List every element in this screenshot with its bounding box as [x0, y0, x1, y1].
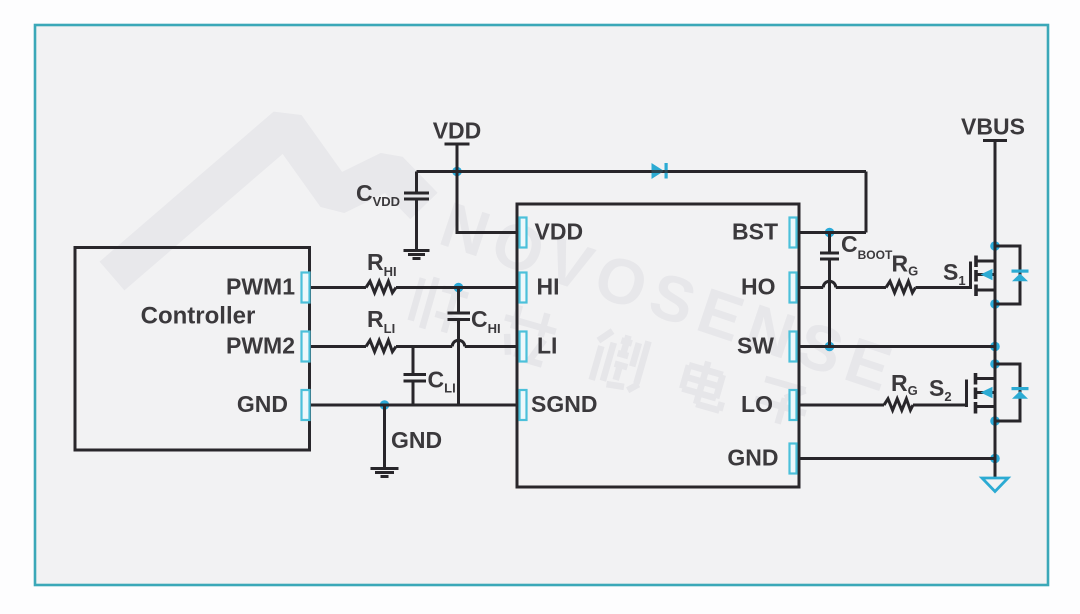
- svg-text:SW: SW: [737, 333, 774, 359]
- diode D1 symbol (cyan): [1012, 270, 1029, 282]
- svg-text:BST: BST: [732, 219, 778, 245]
- svg-text:VDD: VDD: [433, 118, 482, 144]
- pin VDD: [520, 218, 527, 248]
- ground (signal gnd): [371, 469, 399, 477]
- wire VDD terminal drop: [445, 144, 470, 172]
- pin BST: [790, 218, 797, 248]
- svg-text:LO: LO: [741, 391, 773, 417]
- wire PWM1 to HI: [310, 286, 518, 289]
- pin PWM2: [302, 332, 310, 362]
- svg-text:VDD: VDD: [535, 219, 584, 245]
- wire BST to top rail: [799, 231, 866, 234]
- wire LO to S2 gate: [799, 404, 965, 407]
- resistor RG (high side): [886, 281, 916, 292]
- hop on HO wire: [823, 281, 836, 287]
- svg-text:GND: GND: [391, 427, 442, 453]
- svg-text:Controller: Controller: [141, 303, 256, 330]
- svg-text:HI: HI: [537, 274, 560, 300]
- controller box: [75, 248, 310, 451]
- arrow of Q1: [981, 269, 993, 280]
- diode body D1 loop: [995, 246, 1020, 304]
- wire VDD top rail: [417, 172, 867, 233]
- node Q1 source: [990, 299, 1000, 309]
- capacitor CLI: [404, 347, 427, 406]
- capacitor CHI: [448, 288, 471, 406]
- node Q2 drain: [990, 359, 1000, 369]
- svg-text:GND: GND: [237, 391, 288, 417]
- watermark NOVOSENSE text: [432, 188, 908, 408]
- svg-text:SGND: SGND: [531, 391, 597, 417]
- ground (below CVDD): [404, 251, 430, 259]
- pin LI: [520, 332, 527, 362]
- capacitor CBOOT: [820, 233, 839, 347]
- svg-text:PWM2: PWM2: [226, 333, 295, 359]
- resistor RG (low side): [884, 399, 913, 410]
- transistor Q1 (S1): [971, 256, 996, 297]
- pin HI: [520, 273, 527, 303]
- node Q2 source: [990, 416, 1000, 426]
- node BST junction: [825, 228, 835, 238]
- wire GND stub down: [383, 405, 386, 468]
- node Q1 drain: [990, 241, 1000, 251]
- pin SW: [790, 332, 797, 362]
- VBUS terminal: [983, 139, 1007, 142]
- node HI junction: [454, 283, 464, 293]
- node GND junction: [380, 400, 390, 410]
- capacitor CVDD: [404, 172, 429, 250]
- wire VDD junction to VDD pin: [457, 172, 517, 233]
- wire PWM2 to LI: [310, 345, 518, 348]
- wire GND row: [799, 457, 995, 460]
- watermark logo chevron: [112, 126, 424, 276]
- transistor Q2 (S2): [967, 373, 996, 414]
- svg-text:GND: GND: [727, 445, 778, 471]
- svg-text:PWM1: PWM1: [226, 274, 295, 300]
- wire GND to SGND: [310, 404, 518, 407]
- pin LO: [790, 390, 797, 420]
- hop on LI wire: [452, 340, 465, 346]
- node SW junction (VBUS rail): [990, 342, 1000, 352]
- wire VBUS vertical rail: [994, 142, 997, 478]
- diode D2 symbol (cyan): [1012, 387, 1029, 399]
- pin PWM1: [302, 273, 310, 303]
- svg-text:LI: LI: [537, 333, 557, 359]
- node GND row junction: [990, 454, 1000, 464]
- wire HO to S1 gate: [799, 286, 970, 289]
- pin SGND: [520, 390, 527, 420]
- ground (power, cyan triangle): [982, 478, 1008, 492]
- IC box U1: [517, 204, 799, 487]
- resistor RHI: [366, 281, 396, 292]
- node VDD junction: [452, 167, 462, 177]
- node SW junction (CBOOT): [825, 342, 835, 352]
- diode body D2 loop: [995, 364, 1020, 421]
- resistor RLI: [366, 340, 396, 351]
- diode D3 (bootstrap, on top rail): [652, 163, 668, 179]
- pin HO: [790, 273, 797, 303]
- wire through diode D3: [648, 170, 670, 173]
- arrow of Q2: [981, 387, 993, 398]
- wire SW: [799, 345, 995, 348]
- svg-text:HO: HO: [741, 274, 776, 300]
- svg-text:VBUS: VBUS: [961, 114, 1025, 140]
- pin GND (IC right): [790, 444, 797, 474]
- watermark chinese characters (placeholder glyphs): [409, 274, 811, 430]
- pin GND (controller): [302, 390, 310, 420]
